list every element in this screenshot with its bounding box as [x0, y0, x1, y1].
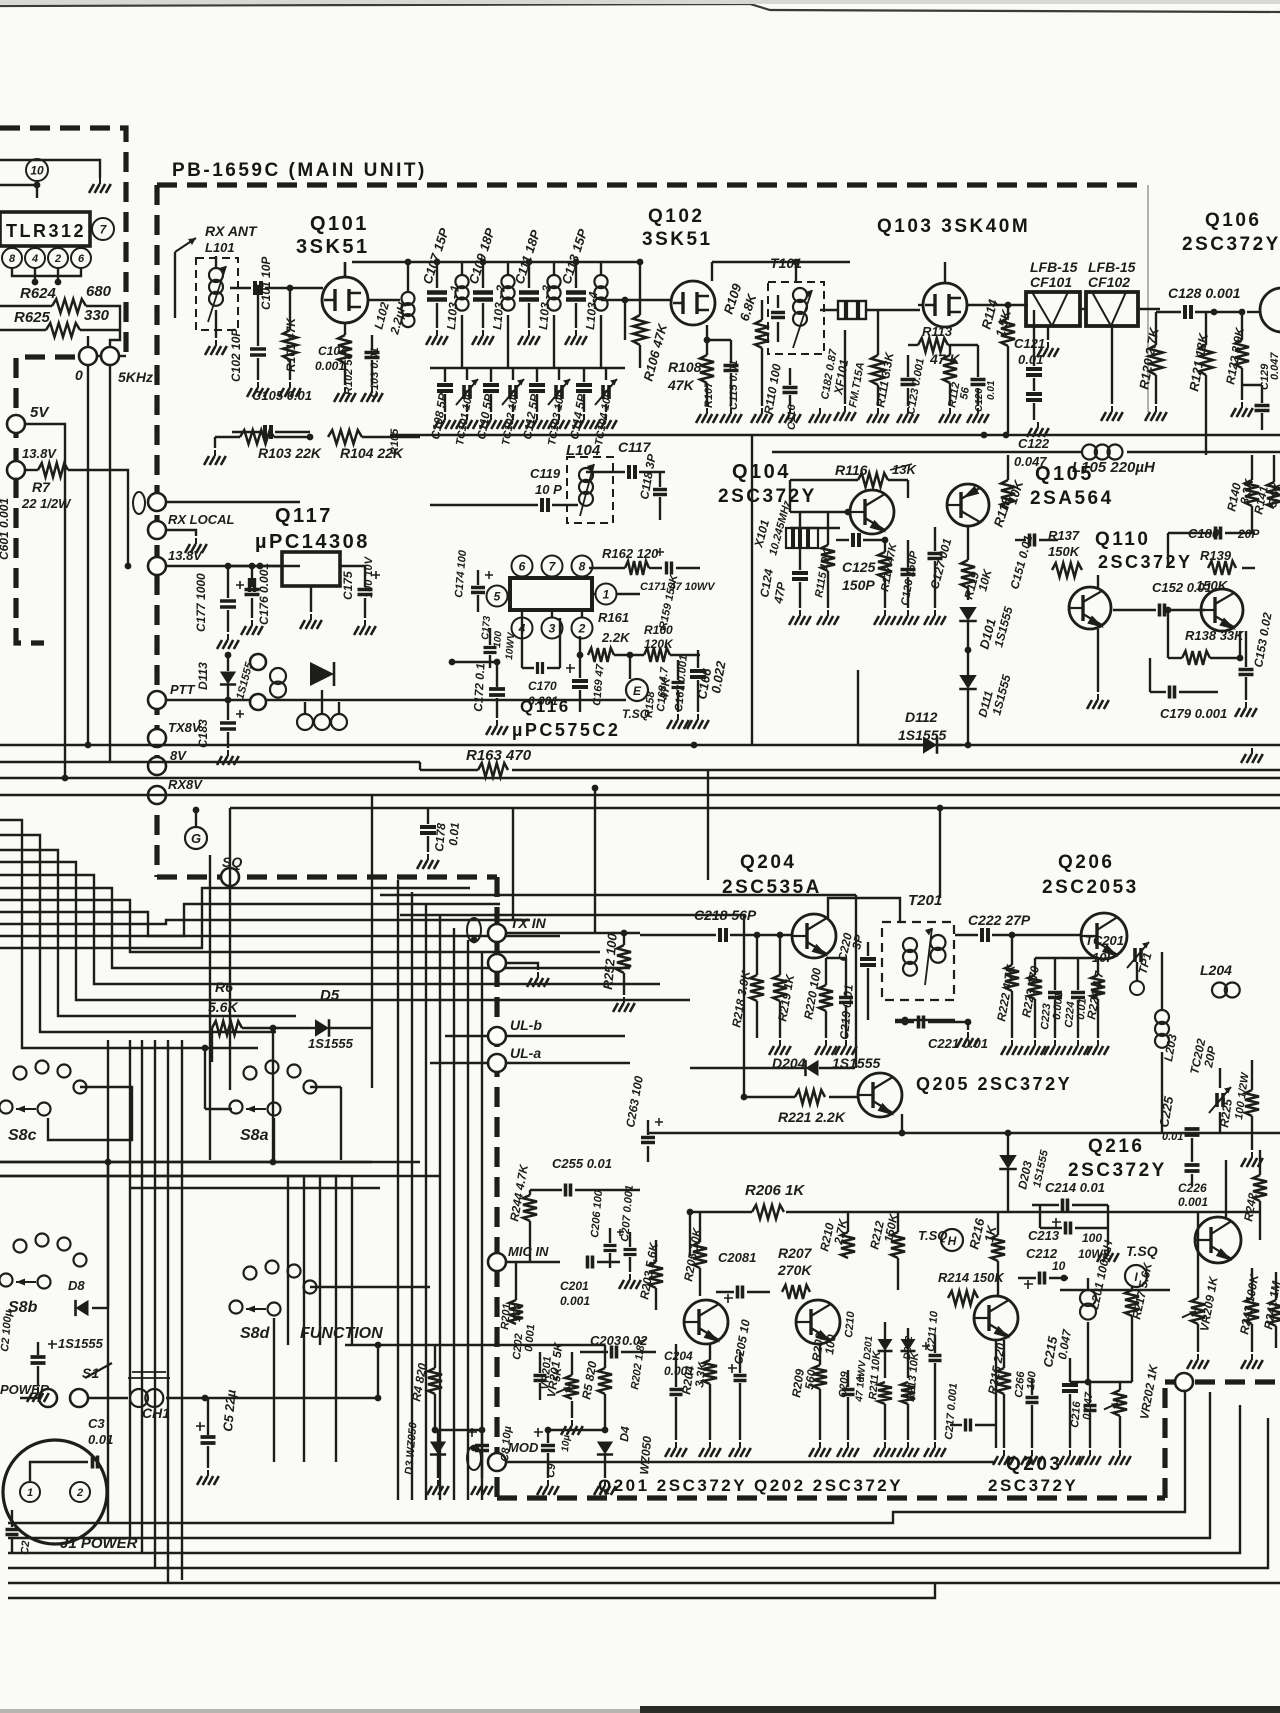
svg-text:2: 2	[76, 1487, 83, 1499]
wire s1	[20, 1397, 39, 1399]
svg-text:2SC372Y: 2SC372Y	[988, 1476, 1078, 1495]
wire ptt row	[166, 699, 626, 701]
wire xtal	[820, 309, 838, 311]
wire q103 in	[918, 304, 923, 306]
svg-text:100: 100	[1082, 1231, 1102, 1245]
svg-text:T201: T201	[908, 892, 942, 909]
wire mic rail	[0, 0, 1, 1]
wire q206 collector	[0, 0, 1, 1]
page bottom edge band	[640, 1706, 1280, 1713]
svg-text:R206 1K: R206 1K	[745, 1182, 805, 1199]
transistor Q202 2SC372Y	[796, 1300, 840, 1344]
svg-text:10P: 10P	[1092, 950, 1115, 965]
svg-text:C179 0.001: C179 0.001	[1160, 706, 1227, 721]
wire x101 top	[799, 512, 801, 528]
resistor R106 47K body	[633, 315, 647, 345]
switch S8b	[14, 1240, 27, 1253]
trimmer TC103 10P	[558, 368, 560, 380]
wire bottom bus 4	[8, 1418, 1268, 1568]
svg-text:C102 10P: C102 10P	[229, 328, 243, 382]
svg-text:Q117: Q117	[275, 505, 333, 527]
svg-text:0.001: 0.001	[1178, 1195, 1208, 1209]
svg-text:10µ: 10µ	[560, 1434, 572, 1452]
wire 0 drop	[87, 365, 89, 745]
switch S8c	[14, 1067, 27, 1080]
svg-text:100: 100	[492, 630, 504, 648]
svg-text:R162 120: R162 120	[602, 546, 659, 561]
svg-text:C222 27P: C222 27P	[968, 912, 1031, 928]
svg-text:RX ANT: RX ANT	[205, 223, 258, 239]
svg-text:FUNCTION: FUNCTION	[300, 1325, 383, 1342]
svg-text:C117: C117	[618, 439, 652, 455]
wire mod rail	[0, 0, 1, 1]
svg-text:R625: R625	[14, 309, 51, 326]
svg-text:Q106: Q106	[1205, 210, 1261, 231]
capacitor C221 0.01	[919, 1016, 924, 1029]
wire trimmer rail	[430, 367, 625, 369]
inductor L103 - 2	[501, 275, 514, 288]
svg-text:R163 470: R163 470	[466, 747, 532, 764]
wire right edge steps	[0, 0, 1, 1]
wire l101 top	[215, 256, 217, 268]
wire pin10 top	[36, 181, 38, 198]
switch S8a	[244, 1067, 257, 1080]
svg-text:C101 10P: C101 10P	[259, 256, 273, 310]
label 1S1555 power	[0, 0, 1, 1]
svg-text:TLR312: TLR312	[6, 221, 86, 241]
wire r141 down	[0, 0, 1, 1]
svg-text:D113: D113	[196, 662, 210, 690]
wire misc drop 1	[0, 0, 1, 1]
ground t101 legs	[761, 380, 763, 406]
IC Q117 box	[282, 552, 340, 586]
diode d112 body	[923, 736, 937, 754]
svg-text:S1: S1	[82, 1365, 99, 1381]
svg-text:22 1/2W: 22 1/2W	[21, 496, 72, 511]
terminal UL-a	[488, 1054, 506, 1072]
resistor R103 22K	[240, 430, 274, 444]
page top edge	[0, 4, 1280, 12]
svg-text:D5: D5	[320, 987, 340, 1004]
terminal 13.8V	[7, 461, 25, 479]
pin 4	[512, 618, 533, 639]
wire q201 q202 links	[0, 0, 1, 1]
terminal TX8V	[148, 729, 166, 747]
svg-text:C172 0.1: C172 0.1	[471, 662, 488, 712]
connector J1 POWER	[3, 1440, 107, 1544]
svg-text:2.2K: 2.2K	[601, 630, 631, 645]
inductor L103 - 3	[547, 275, 560, 288]
svg-text:C177 1000: C177 1000	[194, 573, 208, 632]
svg-text:Q105: Q105	[1035, 463, 1094, 485]
capacitor c202 body	[534, 1376, 547, 1381]
wire 13.8v right	[166, 565, 240, 567]
wire sq down	[0, 0, 1, 1]
svg-text:C218 56P: C218 56P	[694, 907, 757, 923]
wire bottom bus 5	[8, 1582, 1280, 1584]
diode D111 1S1555	[959, 675, 977, 689]
small oval	[133, 492, 145, 514]
capacitor c215 body	[1062, 1385, 1078, 1391]
svg-text:R138 33K: R138 33K	[1185, 628, 1245, 643]
capacitor C202 0.001 labels	[0, 0, 1, 1]
wire rxlocal gnd	[166, 530, 196, 536]
wire q203 emitter	[995, 1340, 997, 1448]
svg-text:C120: C120	[974, 388, 985, 412]
wire q205 collector	[0, 0, 1, 1]
capacitor c176 body	[245, 590, 260, 595]
pin 6	[71, 248, 91, 268]
wire c180 r139 left	[1167, 533, 1169, 568]
terminal 5V	[7, 415, 25, 433]
wire mesh verticals	[209, 855, 211, 1160]
svg-text:TC201: TC201	[1085, 933, 1124, 948]
svg-text:Q101: Q101	[310, 213, 369, 235]
svg-text:S8d: S8d	[240, 1325, 271, 1342]
svg-text:Q216: Q216	[1088, 1136, 1144, 1157]
svg-text:MIC IN: MIC IN	[508, 1244, 549, 1259]
capacitor c225 body	[1185, 1129, 1200, 1135]
transistor Q206 2SC2053	[1081, 913, 1127, 959]
transistor Q204 2SC535A	[792, 914, 836, 958]
svg-text:0.047: 0.047	[1269, 352, 1280, 380]
svg-text:R139: R139	[1200, 548, 1232, 563]
svg-text:120K: 120K	[644, 637, 674, 651]
inductor L103 - 1	[455, 275, 468, 288]
pot vr201 body	[565, 1375, 579, 1399]
capacitor c207 body	[624, 1250, 637, 1255]
capacitor C179 0.001	[1170, 686, 1175, 699]
svg-text:10 P: 10 P	[535, 482, 562, 497]
wire q205 vert	[0, 0, 1, 1]
wire q204 collector top	[0, 0, 1, 1]
svg-text:R214 150K: R214 150K	[938, 1270, 1005, 1285]
bus rail 778	[0, 777, 1280, 779]
svg-text:13.8V: 13.8V	[168, 548, 203, 563]
capacitor c166 body	[690, 671, 706, 677]
svg-text:1S1555: 1S1555	[308, 1036, 354, 1051]
wire top rail	[352, 261, 638, 263]
svg-text:Q206: Q206	[1058, 852, 1114, 873]
svg-text:6: 6	[78, 253, 85, 265]
inductor L103-4	[594, 275, 607, 288]
pin 7	[92, 218, 114, 240]
svg-text:R108: R108	[668, 359, 702, 375]
wire pins to bus	[34, 268, 36, 282]
terminal MOD	[488, 1453, 506, 1471]
wire rail junctions	[592, 785, 599, 792]
svg-text:D8: D8	[68, 1278, 85, 1293]
wire mesh lower left horizontals	[0, 1161, 372, 1163]
switch S8d FUNCTION	[244, 1267, 257, 1280]
wire tx8v rail	[0, 0, 1, 1]
transistor Q205 2SC372Y	[858, 1073, 902, 1117]
pin 4	[25, 248, 45, 268]
capacitor c220 body	[860, 959, 876, 965]
resistor R104 22K	[328, 430, 362, 444]
svg-text:LFB-15: LFB-15	[1030, 259, 1078, 275]
svg-text:8: 8	[9, 253, 16, 265]
wire s8a tail	[310, 1086, 341, 1088]
svg-text:R105: R105	[389, 428, 401, 455]
svg-text:0.001: 0.001	[528, 694, 558, 708]
svg-text:PB-1659C (MAIN UNIT): PB-1659C (MAIN UNIT)	[172, 160, 427, 181]
svg-text:L101: L101	[205, 240, 235, 255]
terminal TX IN	[488, 924, 506, 942]
wire q205 emitter down	[901, 1114, 903, 1133]
svg-text:Q201 2SC372Y Q202 2SC372Y: Q201 2SC372Y Q202 2SC372Y	[598, 1476, 903, 1495]
svg-text:2SA564: 2SA564	[1030, 488, 1114, 509]
wire mod	[506, 1461, 620, 1463]
inductor L105 220uH	[1082, 445, 1097, 460]
svg-text:Q110: Q110	[1095, 529, 1150, 550]
wire q103 out	[967, 304, 1028, 306]
capacitor C109 18P	[482, 262, 484, 288]
capacitor C113 15P	[575, 262, 577, 288]
svg-text:6: 6	[519, 559, 526, 573]
main unit top dashed border	[157, 182, 1140, 187]
wire e to tsq	[0, 0, 1, 1]
bus rail 745	[0, 744, 1280, 746]
svg-text:1: 1	[603, 587, 610, 601]
svg-text:2SC372Y: 2SC372Y	[1182, 234, 1280, 255]
wire sw links	[0, 1161, 420, 1163]
svg-text:Q204: Q204	[740, 852, 796, 873]
SQ box dashed border	[157, 874, 497, 879]
terminal PTT	[148, 691, 166, 709]
ground r103	[214, 437, 216, 448]
resistor r138 body	[1182, 651, 1210, 665]
wire q116 pins	[521, 576, 523, 578]
wire 5v	[25, 424, 65, 778]
bus rail 795	[0, 794, 1280, 796]
svg-text:4: 4	[31, 253, 38, 265]
svg-text:C175: C175	[341, 571, 355, 600]
wire rail drop x513	[512, 808, 514, 920]
svg-text:R103 22K: R103 22K	[258, 445, 322, 461]
pin 7	[542, 556, 563, 577]
svg-text:µPC575C2: µPC575C2	[512, 720, 620, 740]
crystal XF101	[838, 301, 866, 319]
svg-text:C152 0.01: C152 0.01	[1152, 580, 1212, 595]
terminal E	[626, 679, 648, 701]
svg-text:5KHz: 5KHz	[118, 369, 153, 385]
ground L101	[215, 310, 217, 338]
svg-text:R207: R207	[778, 1245, 813, 1261]
svg-text:13.8V: 13.8V	[22, 446, 57, 461]
capacitor C114 5P	[583, 368, 585, 382]
wire pads joiner	[97, 355, 101, 357]
svg-text:R160: R160	[644, 623, 673, 637]
svg-text:G: G	[191, 831, 201, 846]
capacitor C108 5P	[444, 368, 446, 382]
wire 5khz drop	[109, 365, 111, 762]
pin 10	[26, 159, 48, 181]
transistor Q217	[1195, 1217, 1241, 1263]
ground q117	[310, 586, 312, 612]
wire q104 collector net	[0, 0, 1, 1]
wire 1133 rail	[648, 1132, 1280, 1134]
wire t101 top	[795, 262, 797, 282]
diode D101 1S1555	[959, 607, 977, 621]
svg-text:150K: 150K	[1048, 544, 1081, 559]
pin 5	[487, 586, 508, 607]
svg-text:2SC372Y: 2SC372Y	[718, 486, 817, 507]
svg-text:UL-b: UL-b	[510, 1017, 542, 1033]
wire ulb feed	[445, 1035, 488, 1037]
resistor R201 body2	[509, 1300, 523, 1324]
page right fold line	[1147, 185, 1149, 412]
wire ch1 out	[166, 1397, 213, 1399]
wire q216 mod link	[0, 0, 1, 1]
svg-text:R221 2.2K: R221 2.2K	[778, 1109, 846, 1125]
svg-text:C105 0.01: C105 0.01	[252, 388, 312, 403]
svg-text:LFB-15: LFB-15	[1088, 259, 1136, 275]
wires relay	[304, 702, 306, 714]
wire t201 bottom	[895, 1019, 955, 1021]
bus rail 808	[230, 807, 1280, 809]
wire feed r221	[400, 914, 744, 916]
sub dashed border left	[16, 357, 75, 643]
capacitor C107 15P	[436, 262, 438, 288]
svg-text:C128 0.001: C128 0.001	[1168, 285, 1241, 301]
wire q204 emitter	[0, 0, 1, 1]
transistor Q104 2SC372Y	[850, 490, 894, 534]
terminal 13.8V bus	[148, 557, 166, 575]
svg-text:3: 3	[549, 621, 556, 635]
svg-text:Q203: Q203	[1006, 1454, 1062, 1475]
wire s8c tail	[48, 1087, 132, 1140]
thyristor symbol	[310, 662, 334, 686]
wire rail drop x595	[594, 788, 596, 933]
wire verticals bundle right	[397, 880, 399, 1500]
svg-text:UL-a: UL-a	[510, 1045, 541, 1061]
svg-text:0: 0	[75, 367, 83, 383]
svg-text:C3: C3	[88, 1416, 105, 1431]
terminal UL-b	[488, 1027, 506, 1045]
svg-text:2: 2	[54, 253, 61, 265]
svg-text:C122: C122	[1018, 436, 1050, 451]
wire antenna feed	[174, 252, 176, 318]
svg-text:2SC535A: 2SC535A	[722, 877, 822, 898]
svg-text:H: H	[948, 1234, 957, 1248]
svg-text:0.001: 0.001	[560, 1294, 590, 1308]
terminal MIC IN	[488, 1253, 506, 1271]
svg-text:C214 0.01: C214 0.01	[1045, 1180, 1105, 1195]
wire bottom bus 6	[8, 1583, 935, 1598]
IC Q116 box	[510, 578, 592, 610]
svg-text:R137: R137	[1048, 528, 1080, 543]
diode pack circles	[250, 654, 266, 670]
diode D203 1S1555	[999, 1155, 1017, 1169]
wire right rail 1160	[0, 0, 1, 1]
svg-text:0.01: 0.01	[88, 1432, 113, 1447]
resistor R201 100 body	[0, 0, 1, 1]
pad 5KHz	[101, 347, 119, 365]
svg-text:680: 680	[86, 283, 112, 300]
cap c2b body	[6, 1530, 19, 1535]
terminal RX LOCAL top	[148, 493, 166, 511]
wire q101 out	[368, 299, 400, 301]
wire vr209 arrow feed	[1060, 1289, 1170, 1291]
wire bottom rail	[390, 434, 1280, 436]
svg-text:0.001: 0.001	[523, 1324, 537, 1352]
svg-text:270K: 270K	[777, 1262, 812, 1278]
svg-text:1S1555: 1S1555	[898, 727, 946, 743]
svg-text:RX8V: RX8V	[168, 777, 203, 792]
svg-text:47K: 47K	[667, 377, 695, 393]
svg-text:Q103 3SK40M: Q103 3SK40M	[877, 216, 1030, 237]
wire l103-4 to q102	[601, 299, 672, 301]
svg-text:0.01: 0.01	[986, 380, 997, 400]
svg-text:SQ: SQ	[222, 854, 242, 870]
wire r7 to bus	[68, 470, 128, 566]
svg-text:R107: R107	[703, 381, 715, 408]
svg-text:2SC372Y: 2SC372Y	[1068, 1160, 1167, 1181]
transistor Q110b	[1201, 589, 1243, 631]
wire bottom bus 1	[8, 1382, 1185, 1523]
pin 8	[572, 556, 593, 577]
wire cf101 gnd2	[0, 0, 1, 1]
ground c226	[0, 0, 1, 1]
crystal x101 body	[786, 528, 818, 548]
wire right verticals	[1197, 1212, 1199, 1265]
svg-text:5V: 5V	[30, 404, 50, 421]
svg-text:0.01: 0.01	[446, 821, 462, 846]
pin 8	[2, 248, 22, 268]
wire q110b col	[0, 0, 1, 1]
wire mic col verticals	[689, 1212, 691, 1256]
resistor r242 body	[1253, 1175, 1267, 1201]
terminal 8V	[148, 757, 166, 775]
ground far right	[0, 0, 1, 1]
wire q103 top	[944, 262, 946, 283]
wire rail drop x940	[939, 808, 941, 898]
capacitor C111 18P	[528, 262, 530, 288]
wire to pads	[110, 330, 120, 347]
wire q204 top loop	[828, 898, 900, 922]
svg-text:5.6K: 5.6K	[208, 999, 238, 1015]
wire rail drop x752	[751, 435, 753, 745]
transistor Q216 2SC372Y body	[974, 1296, 1018, 1340]
capacitor c151 body	[1030, 534, 1035, 547]
wire c118	[653, 490, 667, 495]
svg-text:Q205 2SC372Y: Q205 2SC372Y	[916, 1074, 1072, 1094]
wire q117 in	[240, 565, 282, 567]
capacitor C171 body	[667, 562, 672, 575]
wire q110a base	[0, 0, 1, 1]
svg-text:8V: 8V	[170, 748, 187, 763]
trimmer TC104 10P	[605, 368, 607, 380]
svg-text:C171 47 10WV: C171 47 10WV	[640, 581, 716, 593]
svg-text:2SC2053: 2SC2053	[1042, 877, 1139, 898]
resistor r216 body	[991, 1235, 1005, 1261]
svg-text:Q104: Q104	[732, 461, 791, 483]
svg-text:2: 2	[578, 621, 586, 635]
wire q110b emitter	[1239, 631, 1241, 658]
wire mesh horizontal mid	[0, 0, 1, 1]
resistor R201-100	[0, 0, 1, 1]
svg-text:330: 330	[84, 307, 110, 324]
wire q110a bias	[1097, 575, 1099, 588]
svg-text:100: 100	[822, 1333, 839, 1355]
pin 6	[512, 556, 533, 577]
transistor Q203 2SC372Y	[0, 0, 1, 1]
svg-text:S8c: S8c	[8, 1127, 37, 1144]
transistor Q110a	[1069, 587, 1111, 629]
svg-text:µPC14308: µPC14308	[255, 531, 370, 553]
svg-text:3SK51: 3SK51	[642, 229, 713, 250]
